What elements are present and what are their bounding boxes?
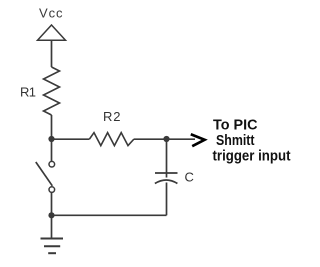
wire node B to capacitor — [166, 139, 168, 178]
ground symbol — [41, 239, 64, 254]
node C junction dot — [48, 212, 54, 218]
capacitor C bottom plate (curved) — [155, 180, 178, 184]
switch top terminal circle — [49, 161, 55, 167]
bottom wire node C to capacitor branch — [52, 214, 167, 216]
label To PIC Shmitt trigger input — [213, 118, 291, 165]
wire switch to node C — [51, 193, 53, 216]
resistor R1 — [44, 67, 60, 115]
node A junction dot — [48, 136, 54, 142]
resistor R2 — [90, 133, 135, 146]
svg-text:To PIC: To PIC — [213, 118, 258, 134]
svg-text:R1: R1 — [20, 85, 36, 100]
wire capacitor to bottom wire — [166, 183, 168, 216]
wire node A to R2 — [52, 138, 90, 140]
wire R2 to node B — [134, 138, 167, 140]
svg-text:R2: R2 — [103, 109, 121, 124]
wire node A to switch top terminal — [51, 139, 53, 161]
switch bottom terminal circle — [49, 187, 55, 193]
svg-text:Shmitt: Shmitt — [216, 133, 255, 149]
wire Vcc to R1 — [51, 40, 53, 67]
svg-text:trigger input: trigger input — [213, 149, 291, 165]
svg-text:C: C — [185, 170, 194, 185]
switch lever — [36, 162, 53, 186]
Vcc power symbol triangle — [38, 25, 66, 40]
wire R1 to node A — [51, 115, 53, 139]
node B junction dot — [163, 136, 169, 142]
wire node C to ground — [51, 215, 53, 239]
arrow to PIC input — [191, 134, 205, 146]
wire node B to arrow — [167, 138, 196, 140]
svg-text:Vcc: Vcc — [39, 6, 63, 21]
capacitor C top plate — [155, 172, 178, 174]
